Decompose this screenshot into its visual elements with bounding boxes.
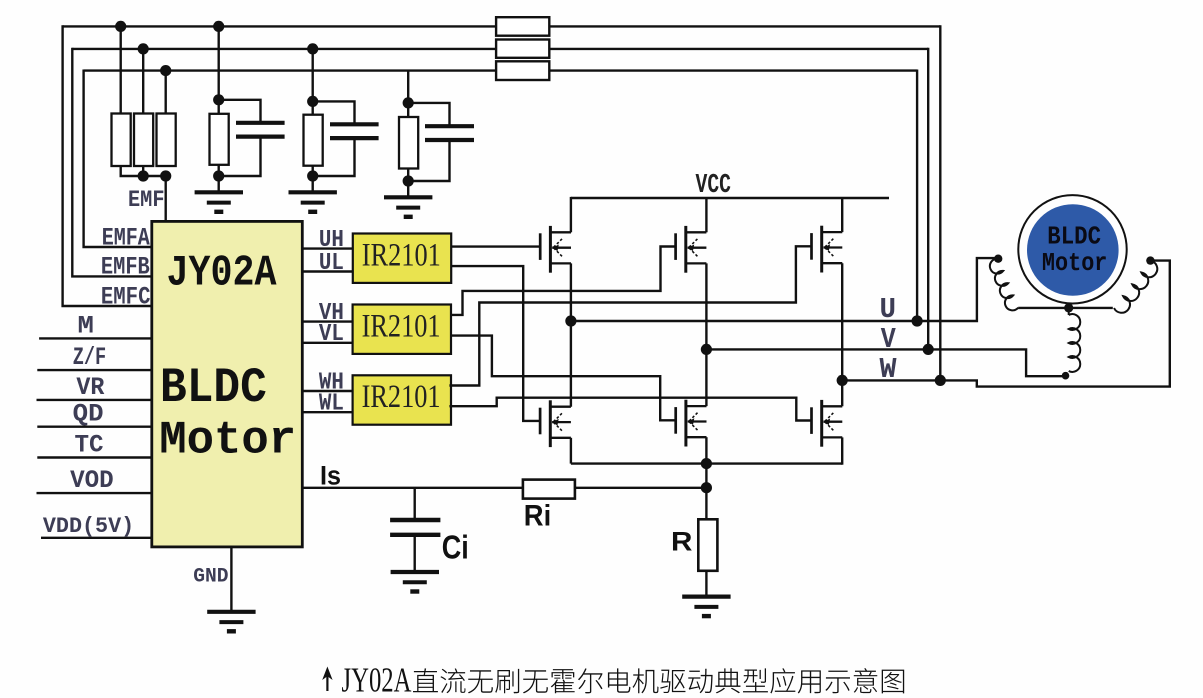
capacitor CF1 branch top <box>219 100 261 121</box>
ground RC1 <box>195 192 243 212</box>
capacitor CF1 branch bottom <box>219 138 261 176</box>
wire RC3 ground stem <box>407 181 409 197</box>
ground Ci <box>391 572 439 592</box>
wire U rail to U node <box>916 70 918 322</box>
motor M1 outer ring <box>1018 195 1126 303</box>
junction dot star point <box>1064 303 1073 312</box>
transistor Q3 (W high-side NMOS) <box>812 226 843 273</box>
ground R <box>682 597 730 617</box>
junction dot U/rail <box>912 315 923 326</box>
svg-text:Motor: Motor <box>1042 248 1108 278</box>
wire HO3 to Q3 gate <box>449 246 811 385</box>
wire pin WH <box>302 390 353 392</box>
wire RF1 bottom lead <box>217 165 219 176</box>
resistor RF1 <box>210 114 229 165</box>
capacitor CF3 top plate <box>425 124 474 128</box>
svg-text:BLDC: BLDC <box>1047 221 1101 251</box>
svg-text:JY02A: JY02A <box>342 661 412 698</box>
ground chip GND <box>207 612 255 632</box>
filter box FB3 (U rail) <box>496 61 549 80</box>
junction dot W/Q3 <box>837 375 848 386</box>
svg-text:QD: QD <box>73 400 104 429</box>
svg-text:VCC: VCC <box>696 170 732 200</box>
wire Q1 source to Q4 drain <box>570 263 572 406</box>
gate driver U3 IR2101 body <box>353 305 451 354</box>
wire pin UL <box>302 270 353 272</box>
svg-text:EMF: EMF <box>128 187 165 214</box>
wire Q5 source down <box>705 437 707 463</box>
resistor R2 <box>134 114 153 167</box>
junction dot rail3/R3 <box>160 65 171 76</box>
svg-text:BLDC: BLDC <box>160 360 267 416</box>
svg-text:IR2101: IR2101 <box>362 236 441 273</box>
wire EMFB drop <box>72 48 152 277</box>
capacitor CF1 top plate <box>236 121 285 125</box>
resistor R body <box>698 519 717 571</box>
svg-text:V: V <box>881 323 897 356</box>
junction dot bus/R3 <box>160 170 171 181</box>
junction dot RC2 bottom <box>307 170 318 181</box>
capacitor CF1 bottom plate <box>236 135 285 139</box>
wire Ci ground stem <box>414 537 416 571</box>
wire HO1 to Q1 gate <box>452 245 541 247</box>
wire W feedback rail (top) <box>63 25 941 27</box>
ground RC2 <box>289 192 337 212</box>
wire source rail to R <box>705 464 707 520</box>
svg-text:Is: Is <box>320 461 341 491</box>
node W phase line <box>842 261 1170 387</box>
wire VCC to Q1 drain <box>570 197 572 232</box>
capacitor CF2 bottom plate <box>330 136 379 140</box>
svg-text:W: W <box>880 353 898 386</box>
svg-text:TC: TC <box>75 431 104 460</box>
junction dot RC3 bottom <box>403 175 414 186</box>
resistor RF3 <box>399 117 418 169</box>
wire VCC rail <box>571 197 889 199</box>
junction dot U/Q1 <box>565 315 576 326</box>
wire RC1 top lead <box>217 26 219 113</box>
wire Q6 source down <box>841 437 843 464</box>
transistor Q6 (W low-side NMOS) <box>812 400 843 447</box>
node V phase line <box>706 349 1063 376</box>
gate driver U2 IR2101 body <box>353 234 451 283</box>
op-amp U1 JY02A body <box>152 221 302 547</box>
capacitor CF3 branch bottom <box>408 142 449 181</box>
wire RF3 bottom lead <box>407 169 409 182</box>
wire RF2 bottom lead <box>312 166 314 176</box>
junction dot rail2/RC2 <box>307 43 318 54</box>
capacitor CF2 top plate <box>330 122 379 126</box>
capacitor CF3 branch top <box>408 103 449 125</box>
svg-text:Z/F: Z/F <box>73 343 107 372</box>
svg-text:Motor: Motor <box>159 413 296 466</box>
wire star bus <box>1018 307 1113 309</box>
transistor Q4 (U low-side NMOS) <box>540 400 571 447</box>
wire Q4 source down <box>570 438 572 464</box>
wire V rail to V node <box>927 48 929 350</box>
wire pin Z/F <box>37 369 152 371</box>
transistor Q5 (V low-side NMOS) <box>676 400 707 447</box>
inductor winding V (center coil) <box>1068 308 1070 315</box>
gate driver U4 IR2101 body <box>353 375 451 424</box>
wire LO1 to Q4 gate <box>452 266 541 421</box>
wire Q3 source to Q6 drain <box>841 263 843 406</box>
capacitor CF3 bottom plate <box>425 138 474 142</box>
filter box FB1 (W rail) <box>496 17 549 36</box>
svg-text:UL: UL <box>319 250 344 277</box>
junction dot U coil <box>994 255 1002 263</box>
svg-text:IR2101: IR2101 <box>362 307 441 344</box>
wire VCC to Q3 drain <box>841 198 843 232</box>
junction dot RC2 top <box>307 96 318 107</box>
wire RC2 ground stem <box>312 176 314 192</box>
svg-text:EMFC: EMFC <box>101 285 151 312</box>
junction dot bus/R2 <box>138 170 149 181</box>
svg-text:VR: VR <box>76 373 104 402</box>
svg-text:IR2101: IR2101 <box>362 378 441 415</box>
wire pin VDD(5V) <box>41 537 153 539</box>
wire EMFA drop <box>84 70 153 248</box>
wire VCC to Q2 drain <box>705 198 707 232</box>
inductor winding U (left coil) <box>990 259 1018 311</box>
resistor RF2 <box>304 115 323 166</box>
wire LO2 to Q5 gate <box>450 336 675 421</box>
junction dot V/rail <box>923 344 934 355</box>
junction dot RC1 top <box>213 94 224 105</box>
wire pin M <box>39 337 152 339</box>
capacitor CF2 branch bottom <box>313 140 355 176</box>
junction dot rail1/R1 <box>115 21 126 32</box>
junction dot RC3 top <box>403 97 414 108</box>
junction dot rail2/R2 <box>138 43 149 54</box>
svg-text:R: R <box>671 527 692 557</box>
svg-text:VOD: VOD <box>70 466 114 495</box>
svg-text:M: M <box>78 311 94 340</box>
wire RC3 top lead <box>407 71 409 117</box>
wire common source rail <box>571 462 842 464</box>
wire resistor R1 top lead <box>119 26 121 113</box>
motor M1 rotor disc <box>1027 204 1119 296</box>
wire EMFC drop (left outer) <box>63 25 153 306</box>
wire V feedback rail (middle) <box>72 48 928 50</box>
wire pin WL <box>302 411 353 413</box>
svg-text:EMFA: EMFA <box>102 225 150 252</box>
wire RC1 ground stem <box>217 176 219 192</box>
caption arrow <box>322 667 332 692</box>
capacitor Ci bottom plate <box>390 533 440 537</box>
junction dot RC1 bottom <box>213 170 224 181</box>
capacitor CF2 branch top <box>313 101 355 122</box>
junction dot V/Q2 <box>701 344 712 355</box>
ground RC3 <box>384 197 432 217</box>
wire Q2 source to Q5 drain <box>705 263 707 406</box>
wire pin GND <box>230 547 232 611</box>
wire pin UH <box>302 247 353 249</box>
wire V coil tail <box>1065 373 1068 376</box>
wire resistor R3 top lead <box>164 71 166 114</box>
wire trio bottom bus <box>121 166 166 176</box>
resistor Ri <box>523 480 575 499</box>
wire pin VL <box>302 342 353 344</box>
wire pin VR <box>37 399 153 401</box>
wire EMF net to chip <box>164 176 166 223</box>
wire pin TC <box>37 456 152 458</box>
capacitor Ci top plate <box>390 518 440 522</box>
svg-text:GND: GND <box>193 565 228 588</box>
wire pin VH <box>302 320 353 322</box>
wire W rail to W node <box>939 25 941 380</box>
wire RC2 top lead <box>312 49 314 115</box>
junction dot V coil end <box>1062 372 1070 380</box>
wire U feedback rail (bottom) <box>84 69 918 71</box>
svg-text:VDD(5V): VDD(5V) <box>43 514 134 539</box>
junction dot W coil <box>1146 256 1154 264</box>
svg-text:WL: WL <box>319 391 344 418</box>
node U phase line <box>571 258 998 321</box>
transistor Q2 (V high-side NMOS) <box>676 226 707 273</box>
junction dot source rail <box>701 458 712 469</box>
svg-text:Ri: Ri <box>524 500 551 533</box>
inductor winding W (right coil) <box>1114 261 1157 313</box>
wire resistor R2 top lead <box>142 49 144 114</box>
junction dot Is/R node <box>701 482 712 493</box>
caption text (Chinese) <box>413 668 904 693</box>
transistor Q1 (U high-side NMOS) <box>540 226 571 273</box>
resistor R1 <box>112 114 131 167</box>
svg-text:EMFB: EMFB <box>101 255 150 282</box>
wire R to ground <box>705 571 707 596</box>
wire LO3 to Q6 gate <box>449 398 811 421</box>
junction dot W/rail <box>935 375 946 386</box>
wire pin Is <box>302 487 706 489</box>
wire pin QD <box>37 426 152 428</box>
wire Ci branch <box>414 488 416 518</box>
svg-text:JY02A: JY02A <box>167 250 278 299</box>
svg-text:Ci: Ci <box>442 528 469 565</box>
resistor R3 <box>157 114 176 167</box>
svg-text:U: U <box>880 293 897 326</box>
svg-text:VL: VL <box>319 321 344 348</box>
wire pin VOD <box>37 492 153 494</box>
wire HO2 to Q2 gate <box>450 247 675 315</box>
filter box FB2 (V rail) <box>496 40 549 58</box>
junction dot rail1/RC1 <box>213 21 224 32</box>
